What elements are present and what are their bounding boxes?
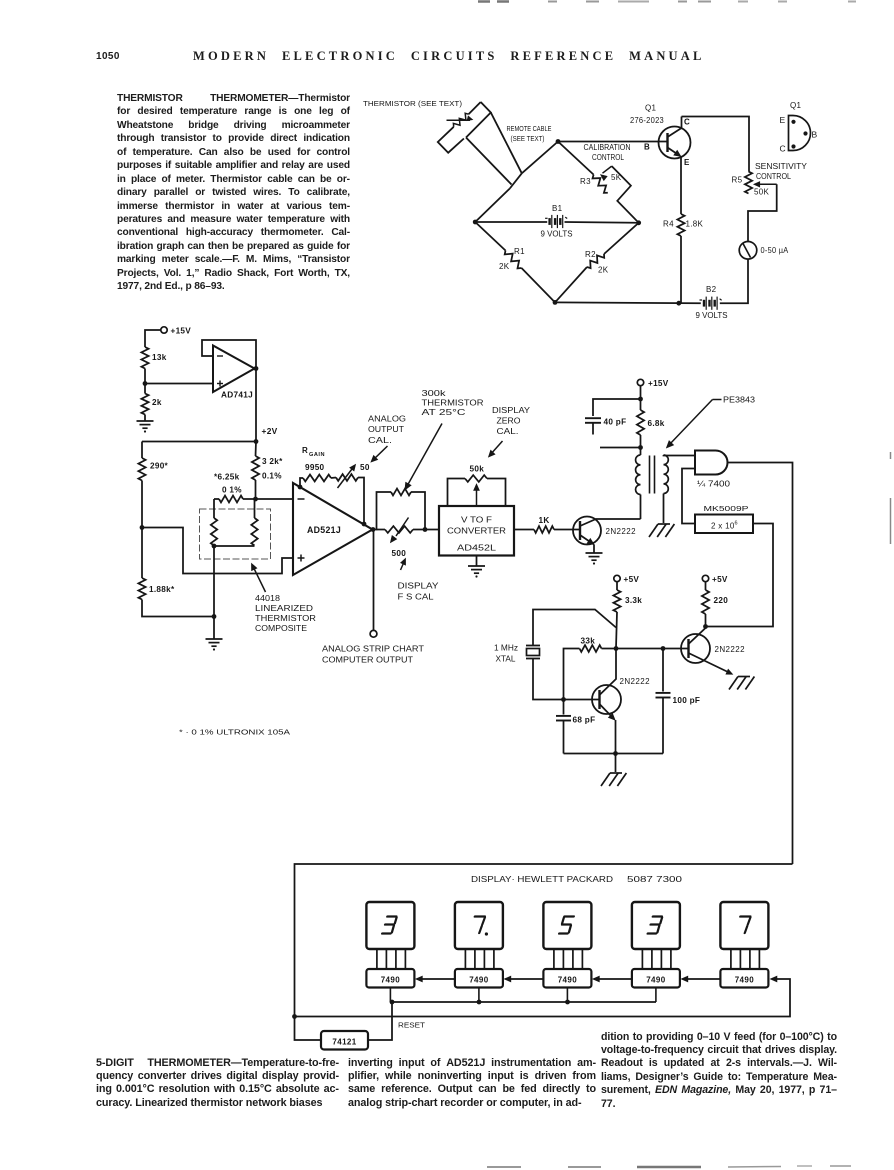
svg-text:9950: 9950 (305, 463, 325, 472)
svg-text:AD741J: AD741J (221, 390, 253, 400)
Q1 collector (668, 117, 682, 138)
label 290* (150, 462, 169, 471)
svg-text:R3: R3 (580, 177, 591, 186)
node reset b2 (477, 1000, 482, 1005)
svg-text:290*: 290* (150, 462, 169, 471)
node reset b1 (390, 1000, 395, 1005)
svg-text:COMPUTER OUTPUT: COMPUTER OUTPUT (322, 656, 413, 665)
Q1 emitter (668, 148, 682, 215)
node transformer primary top (638, 445, 643, 450)
wire B1 left (475, 221, 547, 223)
node left vertex (473, 220, 478, 225)
label B2 (706, 285, 717, 294)
svg-text:COMPOSITE: COMPOSITE (255, 624, 307, 633)
wire left vertex to R1 (475, 222, 505, 251)
wire R4 to bottom rail (680, 236, 682, 303)
svg-text:6.8k: 6.8k (648, 419, 665, 428)
svg-text:R5: R5 (732, 176, 743, 185)
arrow analog output cal (371, 446, 388, 462)
svg-text:+15V: +15V (648, 379, 669, 388)
reset rail (392, 1001, 656, 1003)
svg-text:3.3k: 3.3k (625, 596, 642, 605)
svg-text:F S CAL: F S CAL (398, 593, 435, 602)
svg-text:CONTROL: CONTROL (756, 172, 792, 181)
label AD741J (221, 390, 253, 400)
label R3 (580, 177, 591, 186)
label B (package) (812, 130, 818, 140)
label 500 (392, 549, 407, 558)
Rgain feedback right (358, 478, 364, 525)
wire R2 to right vertex (604, 223, 639, 254)
wire cable to top node (522, 142, 558, 174)
wire primary bottom to Q2 collector (640, 495, 642, 520)
Q1 package pin E dot (791, 120, 795, 124)
label 100 pF (673, 696, 701, 705)
svg-text:CONVERTER: CONVERTER (447, 527, 506, 536)
svg-text:13k: 13k (152, 353, 167, 362)
svg-text:2N2222: 2N2222 (620, 677, 651, 686)
scan marks bottom edge (487, 1166, 851, 1167)
svg-text:2N2222: 2N2222 (606, 527, 637, 536)
svg-text:1.88k*: 1.88k* (149, 585, 175, 594)
gate output wire (728, 463, 793, 865)
label R5 (732, 176, 743, 185)
svg-text:THERMISTOR: THERMISTOR (422, 399, 484, 408)
svg-text:300k: 300k (422, 389, 447, 398)
label THERMISTOR (SEE TEXT) (363, 99, 462, 108)
wire base node to Q3 (564, 699, 600, 701)
arrow display zero cal (489, 441, 503, 457)
node top junction (556, 139, 561, 144)
svg-text:2 x 10: 2 x 10 (711, 522, 735, 531)
svg-text:E: E (780, 115, 786, 125)
resistor 1.88k* (138, 578, 145, 600)
50k wiper arrow (474, 484, 480, 506)
svg-text:B: B (644, 143, 650, 152)
node bottom vertex (553, 300, 558, 305)
label DISPLAY FS CAL (398, 582, 440, 602)
svg-text:2k: 2k (152, 398, 162, 407)
svg-text:74121: 74121 (332, 1038, 356, 1047)
counter 7490 #4 (632, 969, 680, 988)
arrow PE3843 (667, 400, 722, 448)
label REMOTE CABLE (SEE TEXT) (507, 124, 552, 143)
label E (684, 158, 690, 167)
label PE3843 (723, 396, 756, 405)
composite resistor left (211, 518, 217, 546)
wire 6.25k left leg (213, 499, 215, 518)
label 33k (581, 637, 596, 646)
display digit U11 (7.) (455, 902, 503, 949)
label *6.25k (214, 473, 240, 482)
label Q1 (package) (790, 101, 802, 110)
descriptive paragraph: thermistor thermometer (117, 92, 350, 294)
wire secondary bottom to ground (663, 494, 665, 524)
label 1 MHz XTAL (494, 644, 518, 664)
wire rail to ground (615, 754, 617, 773)
clock rail to first counter (295, 976, 791, 1016)
page number (96, 51, 120, 62)
arrow to composite (252, 564, 266, 593)
svg-text:+5V: +5V (624, 575, 640, 584)
composite resistor right (251, 499, 257, 546)
loop right vertical (411, 492, 425, 530)
node bottom-left junction (212, 614, 217, 619)
svg-text:CALIBRATION: CALIBRATION (584, 143, 631, 152)
pot 300k thermistor (391, 489, 411, 496)
scan marks right edge (890, 452, 892, 544)
svg-text:AD452L: AD452L (457, 544, 497, 553)
label 50 (360, 463, 370, 472)
wire bottom vertex to R2 (555, 267, 587, 302)
label 1.8K (686, 220, 704, 229)
node clock/reset junction (292, 1014, 297, 1019)
svg-text:6: 6 (735, 521, 738, 527)
wire top node to Q1 base (558, 141, 667, 143)
ground (V-F) (468, 566, 485, 578)
node U1 output (254, 366, 259, 371)
svg-text:2K: 2K (499, 262, 510, 271)
svg-text:AD521J: AD521J (307, 525, 341, 535)
divider MK5009P box (695, 515, 753, 534)
ground (Q2 emitter) (586, 553, 603, 565)
capacitor 40pF (585, 418, 601, 434)
Q1 package pin B dot (803, 131, 807, 135)
svg-text:Q1: Q1 (790, 101, 802, 110)
svg-text:DISPLAY· HEWLETT PACKARD: DISPLAY· HEWLETT PACKARD (471, 875, 613, 884)
node 13k/2k junction (143, 381, 148, 386)
svg-text:1K: 1K (539, 516, 550, 525)
wire V-F out to 1K (514, 529, 534, 531)
resistor 6.25k 0.1% (214, 496, 256, 503)
label 0 1% (222, 486, 242, 495)
label 3.3k (625, 596, 642, 605)
svg-text:OUTPUT: OUTPUT (368, 425, 404, 434)
wire MK out (706, 524, 773, 627)
label ANALOG STRIP CHART COMPUTER OUTPUT (322, 645, 424, 665)
svg-text:50: 50 (360, 463, 370, 472)
Rgain feedback left (300, 478, 303, 487)
svg-text:9 VOLTS: 9 VOLTS (696, 311, 728, 320)
svg-text:B: B (812, 130, 818, 140)
svg-text:AT 25°C: AT 25°C (422, 408, 466, 417)
svg-text:MK5009P: MK5009P (704, 504, 749, 513)
svg-text:+5V: +5V (712, 575, 728, 584)
label +5V (osc) (624, 575, 640, 584)
wire 6.8k to winding node (640, 435, 642, 448)
svg-text:50k: 50k (470, 465, 485, 474)
wire top node to R3 (558, 142, 594, 175)
label 68 pF (573, 716, 596, 725)
display pins U11 (465, 949, 494, 969)
remote cable ribbon (438, 102, 522, 189)
wire bottom rail (555, 301, 701, 304)
U1 feedback wire (202, 340, 256, 369)
svg-text:50K: 50K (754, 188, 769, 197)
R3 wiper arrow (601, 166, 612, 180)
wire B1 right (565, 221, 639, 224)
svg-text:2K: 2K (598, 266, 609, 275)
reset pin 7490#1 (389, 988, 391, 1003)
svg-text:7490: 7490 (735, 976, 755, 985)
resistor 220 (702, 582, 709, 614)
svg-text:C: C (684, 118, 690, 127)
svg-text:DISPLAY: DISPLAY (492, 406, 531, 415)
resistor R1 2K (505, 251, 522, 269)
node 40pF junction (638, 397, 643, 402)
resistor 2k (141, 384, 148, 415)
label 6.8k (648, 419, 665, 428)
caption column 2 (348, 1057, 596, 1111)
thermistor RT (447, 113, 473, 127)
svg-text:ANALOG STRIP CHART: ANALOG STRIP CHART (322, 645, 424, 654)
svg-text:3 2k*: 3 2k* (262, 457, 283, 466)
op-amp U2 AD521J (293, 483, 373, 575)
wire node to plus-input path (142, 528, 293, 574)
node R4 bottom junction (676, 301, 681, 306)
display pins U14 (731, 949, 760, 969)
display digit U12 (5) (543, 902, 591, 949)
svg-text:XTAL: XTAL (496, 655, 517, 664)
clock wire top (295, 864, 793, 1017)
label 40 pF (604, 418, 627, 427)
svg-text:B2: B2 (706, 285, 717, 294)
label R2 (585, 250, 596, 259)
node U2 output (371, 527, 376, 532)
svg-text:7490: 7490 (558, 976, 578, 985)
label SENSITIVITY CONTROL (755, 162, 808, 181)
label 9950 (305, 463, 325, 472)
crystal Y1 1MHz (526, 610, 616, 700)
terminal +5V (right) (702, 575, 708, 581)
gate input 2 wire (682, 469, 695, 524)
carry wire 7490#4 to #3 (593, 976, 632, 982)
V-to-F converter box AD452L (439, 506, 514, 556)
counter 7490 #5 (720, 969, 768, 988)
svg-text:+2V: +2V (262, 426, 278, 436)
wire U1 output to +2V node (255, 369, 257, 442)
node 100pF top junction (661, 646, 666, 651)
label 1/4 7400 (697, 480, 731, 489)
caption column 1 (96, 1057, 339, 1111)
label CALIBRATION CONTROL (584, 143, 631, 162)
wire meter to bottom rail (720, 259, 748, 303)
transformer T1 core (650, 456, 655, 494)
svg-text:5087 7300: 5087 7300 (627, 875, 683, 884)
display pins U12 (554, 949, 583, 969)
Q4 emitter (689, 653, 733, 674)
svg-text:THERMISTOR (SEE TEXT): THERMISTOR (SEE TEXT) (363, 99, 462, 108)
running head title (193, 49, 713, 64)
svg-text:ANALOG: ANALOG (368, 415, 406, 424)
svg-text:R1: R1 (514, 247, 525, 256)
wire R1 to bottom vertex (522, 268, 556, 302)
svg-text:500: 500 (392, 549, 407, 558)
label +2V (262, 426, 278, 436)
wire 290 to node (141, 481, 143, 528)
wire Q1 collector to R5 branch (682, 117, 750, 172)
svg-text:5K: 5K (611, 173, 622, 182)
wire node to op-amp + input (145, 383, 213, 385)
NAND gate 1/4 7400 (695, 451, 728, 475)
wire to 74121 (295, 1017, 322, 1041)
wire +15V to node (640, 386, 642, 399)
resistor R5 50K (745, 172, 752, 194)
wire 3.2k to minus node (255, 480, 257, 499)
label 50k (470, 465, 485, 474)
svg-text:R: R (302, 446, 308, 455)
ground (composite) (206, 639, 223, 651)
loop left vertical (373, 492, 391, 530)
display pins U13 (642, 949, 671, 969)
resistor 3.3k (613, 582, 620, 612)
reset pin 7490#4 (655, 988, 657, 1003)
node Rgain left (298, 485, 303, 490)
ground (secondary) (649, 524, 674, 537)
meter M1 0-50uA (739, 242, 757, 260)
node 290/1.88k junction (140, 525, 145, 530)
transistor Q3 2N2222 (592, 685, 621, 714)
svg-text:0 1%: 0 1% (222, 486, 242, 495)
label R GAIN (302, 446, 325, 458)
carry wire 7490#3 to #2 (504, 976, 543, 982)
label 1K (539, 516, 550, 525)
label 2k (152, 398, 162, 407)
label 9 VOLTS (B1) (541, 230, 573, 239)
caption column 3 (601, 1031, 837, 1112)
counter 7490 #2 (455, 969, 503, 988)
wire R3 wiper jog to right vertex (612, 166, 639, 223)
svg-text:7490: 7490 (469, 976, 489, 985)
capacitor 100pF (656, 649, 671, 754)
label 44018 LINEARIZED THERMISTOR COMPOSITE (255, 594, 316, 633)
transformer T1 secondary winding (664, 455, 669, 494)
wire 2k to ground (144, 415, 146, 422)
svg-text:* · 0 1% ULTRONIX 105A: * · 0 1% ULTRONIX 105A (179, 728, 290, 737)
label DISPLAY HEWLETT PACKARD 5087 7300 (471, 875, 683, 884)
node osc base junction (561, 697, 566, 702)
svg-text:RESET: RESET (398, 1021, 426, 1030)
label E (package) (780, 115, 786, 125)
label 5K (611, 173, 622, 182)
label RESET (398, 1021, 426, 1030)
svg-text:0.1%: 0.1% (262, 472, 282, 481)
svg-text:CAL.: CAL. (497, 427, 519, 436)
svg-text:R2: R2 (585, 250, 596, 259)
Q3 emitter (600, 704, 616, 754)
resistor 290* (138, 458, 145, 481)
resistor R2 2K (587, 254, 604, 268)
thermistor composite box (200, 509, 271, 559)
label B1 (552, 204, 563, 213)
label 3.2k* (262, 457, 283, 466)
transistor Q4 2N2222 (681, 634, 710, 663)
svg-text:CAL.: CAL. (368, 436, 392, 445)
wire +15V to 13k (145, 330, 161, 347)
label 2K (R1) (499, 262, 510, 271)
label 9 VOLTS (B2) (696, 311, 728, 320)
svg-text:V TO F: V TO F (461, 516, 492, 525)
transistor Q1 (659, 127, 691, 159)
label 0-50 uA (761, 246, 789, 255)
pot 50k display zero loop (448, 475, 506, 506)
transformer T1 primary winding (636, 455, 641, 495)
node V-F input (423, 527, 428, 532)
svg-text:7490: 7490 (646, 976, 666, 985)
label B (644, 143, 650, 152)
label +15V (right) (648, 379, 669, 388)
wire to ground (composite) (213, 617, 215, 640)
svg-text:PE3843: PE3843 (723, 396, 756, 405)
resistor R4 1.8K (677, 214, 684, 236)
Q3 collector (600, 649, 617, 696)
svg-text:Q1: Q1 (645, 104, 657, 113)
label MK5009P (704, 504, 749, 513)
Q1 package outline (789, 116, 811, 151)
wire primary stub (600, 447, 641, 449)
arrow 300k thermistor (405, 424, 442, 490)
capacitor 68pF (556, 700, 571, 754)
label +5V (right) (712, 575, 728, 584)
label R1 (514, 247, 525, 256)
label C (package) (780, 144, 786, 154)
label 50K (754, 188, 769, 197)
svg-text:¼ 7400: ¼ 7400 (697, 480, 731, 489)
svg-text:R4: R4 (663, 220, 674, 229)
label C (684, 118, 690, 127)
label R4 (663, 220, 674, 229)
svg-text:REMOTE CABLE: REMOTE CABLE (507, 124, 552, 133)
svg-text:ZERO: ZERO (497, 417, 521, 426)
label +15V (left) (171, 327, 192, 336)
carry wire 7490#2 to #1 (416, 976, 455, 982)
terminal +15V (left) (161, 327, 167, 333)
label ultronix footnote (179, 728, 290, 737)
wire osc bottom rail (564, 753, 664, 755)
wire secondary top to gate (664, 454, 696, 457)
svg-text:2N2222: 2N2222 (715, 645, 746, 654)
node 220/collector junction (703, 624, 708, 629)
svg-text:B1: B1 (552, 204, 563, 213)
wire cable to left vertex (475, 189, 510, 223)
Q4 collector (689, 628, 706, 644)
ground (2k) (137, 421, 154, 433)
label 276-2023 (630, 116, 664, 125)
label 2N2222 (Q4) (715, 645, 746, 654)
transistor Q2 2N2222 (573, 517, 601, 545)
resistor R3 5K (593, 175, 608, 193)
svg-text:100 pF: 100 pF (673, 696, 701, 705)
reset pin 7490#3 (566, 988, 568, 1003)
wire node to 1.88k (141, 528, 143, 579)
svg-text:*6.25k: *6.25k (214, 473, 240, 482)
reset pin 7490#2 (478, 988, 480, 1003)
pot 500 display fs cal (377, 518, 414, 543)
counter 7490 #3 (543, 969, 591, 988)
node osc collector junction (614, 646, 619, 651)
svg-text:1.8K: 1.8K (686, 220, 704, 229)
node +2V (254, 439, 259, 444)
battery B1 (545, 215, 567, 228)
arrow display fs cal (401, 559, 406, 571)
wire osc node to Q4 base node (616, 648, 663, 650)
node osc rail center (613, 751, 618, 756)
label 0.1% (262, 472, 282, 481)
svg-text:9 VOLTS: 9 VOLTS (541, 230, 573, 239)
svg-text:LINEARIZED: LINEARIZED (255, 604, 313, 613)
battery B2 (700, 297, 722, 310)
svg-text:220: 220 (714, 596, 729, 605)
